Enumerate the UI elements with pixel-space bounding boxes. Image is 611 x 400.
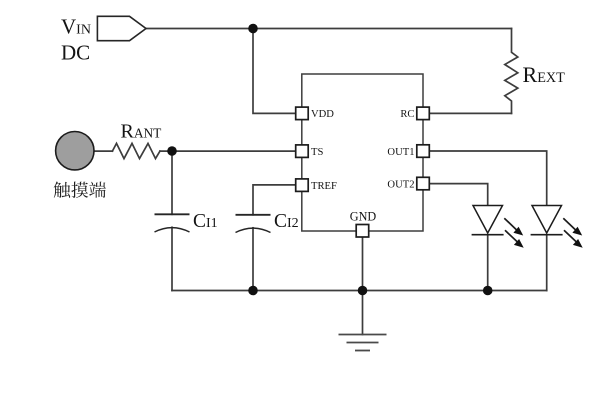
wire junction down to capacitor CI1 bbox=[171, 151, 173, 214]
svg-text:TS: TS bbox=[311, 147, 323, 158]
wire CI1 bottom to bottom rail bbox=[171, 227, 173, 290]
pin RC bbox=[417, 107, 430, 120]
resistor REXT bbox=[505, 29, 518, 114]
wire TREF to CI2 bbox=[253, 185, 296, 215]
node junction LED D1 bottom bbox=[483, 286, 493, 296]
pin VDD bbox=[296, 107, 309, 120]
svg-text:DC: DC bbox=[61, 41, 90, 65]
node junction GND bottom bbox=[358, 286, 368, 296]
pin OUT2 bbox=[417, 177, 430, 190]
pin TS bbox=[296, 145, 309, 158]
wire LED D1 to bottom rail bbox=[487, 235, 489, 291]
pin OUT1 bbox=[417, 145, 430, 158]
touch pad electrode bbox=[56, 132, 94, 170]
wire OUT2 to LED D1 bbox=[430, 184, 488, 206]
wire LED D2 to bottom rail bbox=[546, 235, 548, 291]
connector VIN flag bbox=[97, 16, 146, 40]
pin TREF bbox=[296, 179, 309, 192]
IC U1 body (touch controller) bbox=[302, 74, 423, 231]
wire REXT to RC pin bbox=[430, 112, 512, 114]
wire bottom rail bbox=[172, 290, 547, 292]
capacitor CI2 bbox=[236, 215, 271, 233]
wire VIN to top-right bbox=[146, 28, 512, 30]
svg-text:VDD: VDD bbox=[311, 109, 334, 120]
wire RANT to TS pin bbox=[160, 150, 296, 152]
node junction TS bbox=[167, 146, 177, 156]
resistor RANT bbox=[112, 143, 160, 158]
wire OUT1 to LED D2 bbox=[430, 151, 547, 206]
svg-text:OUT2: OUT2 bbox=[387, 180, 414, 191]
ground bbox=[339, 335, 387, 351]
svg-text:GND: GND bbox=[350, 209, 377, 223]
LED D2 bbox=[531, 206, 583, 248]
svg-text:TREF: TREF bbox=[311, 181, 337, 192]
svg-text:RC: RC bbox=[400, 109, 414, 120]
wire CI2 bottom to bottom rail bbox=[252, 228, 254, 291]
label touch terminal 触摸端 bbox=[54, 182, 106, 198]
LED D1 bbox=[472, 206, 524, 248]
node junction VIN rail bbox=[248, 24, 258, 34]
wire touch circle to resistor bbox=[94, 150, 112, 152]
pin GND bbox=[356, 225, 369, 238]
capacitor CI1 bbox=[155, 214, 190, 232]
svg-text:OUT1: OUT1 bbox=[387, 147, 414, 158]
node junction CI2 bottom bbox=[248, 286, 258, 296]
wire GND pin to ground bbox=[362, 237, 364, 335]
wire junction down to VDD bbox=[253, 29, 296, 114]
